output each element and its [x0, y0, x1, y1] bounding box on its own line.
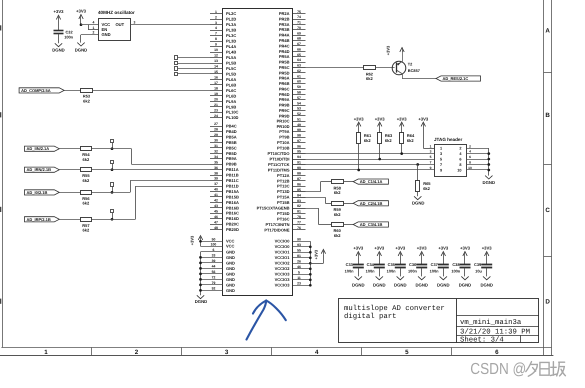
svg-text:50: 50: [212, 237, 216, 241]
svg-text:6: 6: [495, 349, 499, 356]
svg-text:PT13D: PT13D: [277, 189, 290, 194]
svg-text:PL6A: PL6A: [226, 77, 236, 82]
svg-text:18: 18: [214, 87, 218, 91]
capacitor C35 100n: [395, 264, 406, 266]
svg-text:PT13C: PT13C: [277, 184, 290, 189]
wire oscillator GND pin 2 to ground: [81, 34, 98, 36]
svg-text:6k2: 6k2: [385, 138, 392, 143]
svg-text:PL10D: PL10D: [226, 115, 239, 120]
svg-text:PL3B: PL3B: [226, 28, 236, 33]
wire R60 to flag: [343, 224, 353, 226]
svg-text:19: 19: [214, 92, 218, 96]
ground DGND below R65: [414, 196, 421, 199]
wire JTAG TDO line (U1 to header pin 3): [293, 153, 434, 155]
svg-text:100n: 100n: [451, 269, 460, 274]
svg-text:9: 9: [440, 168, 442, 172]
svg-text:84: 84: [297, 193, 301, 197]
svg-text:63: 63: [297, 64, 301, 68]
svg-text:PB11A: PB11A: [226, 167, 239, 172]
ground DGND below C33: [355, 276, 362, 279]
svg-text:VCCIO3: VCCIO3: [275, 272, 291, 277]
svg-text:DGND: DGND: [412, 201, 425, 206]
ground DGND below U1: [197, 295, 204, 298]
svg-text:+3V3: +3V3: [54, 9, 65, 14]
node junction on AD_IRN/2.1B: [111, 168, 114, 171]
resistor R55: [81, 168, 92, 172]
ground DGND below C39: [483, 276, 490, 279]
svg-text:PB11D: PB11D: [226, 183, 239, 188]
svg-text:12: 12: [214, 54, 218, 58]
wire C34 to ground: [379, 268, 381, 277]
svg-text:35: 35: [214, 160, 218, 164]
svg-text:5: 5: [298, 270, 300, 274]
svg-text:PR9D: PR9D: [279, 113, 290, 118]
svg-text:61: 61: [297, 74, 301, 78]
svg-text:23: 23: [297, 281, 301, 285]
svg-text:10: 10: [214, 48, 218, 52]
wire C32 to ground: [58, 34, 60, 44]
svg-text:PB5C: PB5C: [226, 145, 237, 150]
node junction R64: [400, 152, 403, 155]
svg-text:7: 7: [215, 32, 217, 36]
svg-text:DGND: DGND: [459, 282, 472, 287]
wire AD_COMP flag to R53: [64, 90, 80, 92]
svg-text:28: 28: [214, 128, 218, 132]
svg-text:PT12B: PT12B: [277, 178, 290, 183]
svg-text:40: 40: [214, 188, 218, 192]
resistor R63: [378, 133, 382, 144]
svg-text:100: 100: [211, 242, 217, 246]
svg-text:PR5C: PR5C: [279, 65, 290, 70]
svg-text:3: 3: [134, 21, 136, 25]
node junction on AD_IRP/2.1B: [111, 218, 114, 221]
svg-text:GND: GND: [226, 277, 235, 282]
svg-text:2: 2: [469, 144, 471, 148]
wire +3V3 to oscillator VCC pin 4: [81, 24, 98, 26]
svg-text:6k2: 6k2: [83, 178, 90, 183]
capacitor C34 100n: [374, 264, 385, 266]
node junction on AD_IIN/2.1A: [111, 147, 114, 150]
svg-text:AD_C3/4.1B: AD_C3/4.1B: [360, 222, 383, 227]
svg-text:GND: GND: [102, 32, 111, 37]
svg-text:+3V3: +3V3: [374, 245, 385, 250]
svg-text:PR2A: PR2A: [279, 11, 290, 16]
svg-text:1: 1: [93, 26, 95, 30]
wire GND bus of U1: [201, 251, 223, 253]
svg-text:3: 3: [430, 150, 432, 154]
svg-text:4: 4: [215, 26, 217, 30]
svg-text:DGND: DGND: [75, 47, 88, 52]
svg-text:PB5D: PB5D: [226, 151, 237, 156]
svg-text:65: 65: [297, 53, 301, 57]
frame right row dividers: [544, 72, 552, 74]
svg-text:PT10C/TDO: PT10C/TDO: [267, 151, 289, 156]
svg-text:VCCIO2: VCCIO2: [275, 266, 291, 271]
svg-text:32: 32: [214, 149, 218, 153]
wire R61 to JTAG line: [358, 144, 360, 170]
svg-text:Sheet: 3/4: Sheet: 3/4: [460, 336, 504, 345]
svg-text:10: 10: [457, 168, 461, 172]
svg-text:66: 66: [297, 47, 301, 51]
svg-text:BC857: BC857: [408, 68, 420, 73]
svg-text:81: 81: [297, 210, 301, 214]
svg-text:PL4A: PL4A: [226, 44, 236, 49]
svg-text:96: 96: [297, 144, 301, 148]
svg-text:PR2B: PR2B: [279, 16, 290, 21]
wire T2 collector to AD_RES flag: [402, 78, 436, 80]
svg-text:6k2: 6k2: [366, 76, 373, 81]
wire C39 to ground: [486, 268, 488, 277]
svg-text:PB5A: PB5A: [226, 134, 237, 139]
wire JTAG TDI line (U1 to header pin 5): [293, 159, 434, 161]
svg-text:PR4C: PR4C: [279, 43, 290, 48]
wire AD_IRN/2.1B to U1: [92, 169, 210, 171]
svg-text:8: 8: [469, 161, 471, 165]
svg-text:4: 4: [93, 21, 95, 25]
resistor R54: [81, 147, 92, 151]
resistor R62: [364, 66, 376, 70]
svg-text:41: 41: [214, 193, 218, 197]
svg-text:75: 75: [297, 10, 301, 14]
svg-text:97: 97: [297, 139, 301, 143]
svg-text:C34: C34: [367, 262, 375, 267]
svg-text:53: 53: [297, 107, 301, 111]
resistor R60: [332, 223, 344, 227]
svg-text:PB16D: PB16D: [226, 216, 239, 221]
wire U1 to R59: [293, 197, 325, 199]
resistor R64: [400, 133, 404, 144]
svg-text:+3V3: +3V3: [76, 9, 87, 14]
svg-text:PR9A: PR9A: [279, 97, 290, 102]
svg-text:9: 9: [430, 166, 432, 170]
svg-text:4: 4: [315, 349, 319, 356]
svg-text:PB15A: PB15A: [226, 189, 239, 194]
svg-text:PL6C: PL6C: [226, 88, 236, 93]
wire VCC pins to +3V3: [201, 241, 223, 243]
svg-text:1: 1: [44, 349, 48, 356]
U1 right pins block 2 (PT) stubs, numbers and labels: [293, 131, 306, 133]
svg-text:6k2: 6k2: [83, 228, 90, 233]
svg-text:6k2: 6k2: [423, 186, 430, 191]
svg-text:71: 71: [297, 21, 301, 25]
ground DGND below oscillator: [77, 43, 84, 46]
svg-text:69: 69: [297, 31, 301, 35]
net flag AD_COMP/2.5A: [19, 88, 64, 93]
svg-text:PR10C: PR10C: [277, 119, 290, 124]
svg-text:VCCIO0: VCCIO0: [275, 239, 291, 244]
capacitor C33 100n: [353, 264, 364, 266]
hand-drawn blue arrow annotation: [247, 301, 286, 340]
svg-text:6k2: 6k2: [83, 99, 90, 104]
svg-text:PB11C: PB11C: [226, 178, 239, 183]
svg-text:2: 2: [135, 349, 139, 356]
svg-text:14: 14: [214, 65, 218, 69]
wire C35 to ground: [400, 268, 402, 277]
svg-text:AD_IRN/2.1B: AD_IRN/2.1B: [27, 167, 52, 172]
svg-text:44: 44: [212, 265, 216, 269]
svg-text:C32: C32: [66, 29, 74, 34]
svg-text:36: 36: [214, 166, 218, 170]
U1 right pins block 1 (PR) stubs, numbers and labels: [293, 13, 306, 15]
wire R64 to JTAG line: [401, 144, 403, 154]
svg-text:C33: C33: [346, 262, 354, 267]
svg-text:7: 7: [440, 163, 442, 167]
svg-text:PT15C/XTAGENB: PT15C/XTAGENB: [257, 206, 290, 211]
svg-text:PB5B: PB5B: [226, 140, 237, 145]
svg-text:PL3A: PL3A: [226, 22, 236, 27]
svg-text:PT9B: PT9B: [279, 135, 289, 140]
test point on AD_IRP/2.1B net: [111, 210, 114, 213]
svg-text:5: 5: [440, 158, 442, 162]
svg-text:PL4B: PL4B: [226, 49, 236, 54]
net flag AD_C1/4.1A: [353, 179, 388, 184]
svg-text:2: 2: [215, 15, 217, 19]
resistor R61: [357, 133, 361, 144]
svg-text:AD_IIN/2.1A: AD_IIN/2.1A: [27, 146, 50, 151]
svg-text:DGND: DGND: [415, 282, 428, 287]
svg-text:PR4A: PR4A: [279, 33, 290, 38]
svg-text:PT12A: PT12A: [277, 173, 290, 178]
svg-text:DGND: DGND: [483, 180, 496, 185]
svg-text:PT17C/INITN: PT17C/INITN: [265, 222, 289, 227]
svg-text:GND: GND: [226, 255, 235, 260]
svg-text:48: 48: [214, 226, 218, 230]
svg-text:3: 3: [440, 152, 442, 156]
wire AD_IIN/2.1A flag to R54: [59, 148, 80, 150]
svg-text:PR6A: PR6A: [279, 76, 290, 81]
svg-text:43: 43: [214, 204, 218, 208]
svg-text:2: 2: [459, 147, 461, 151]
svg-text:3: 3: [225, 349, 229, 356]
power +3V3 for VCCIO bus: [310, 263, 323, 265]
svg-text:27: 27: [214, 122, 218, 126]
wire C38 to ground: [464, 268, 466, 277]
svg-text:74: 74: [297, 15, 301, 19]
ground DGND below C38: [461, 276, 468, 279]
svg-text:6k2: 6k2: [83, 201, 90, 206]
svg-text:100n: 100n: [366, 269, 375, 274]
svg-text:PR4B: PR4B: [279, 38, 290, 43]
svg-text:1: 1: [215, 10, 217, 14]
svg-text:AD_IRP/2.1B: AD_IRP/2.1B: [27, 217, 51, 222]
svg-text:+3V3: +3V3: [418, 116, 429, 121]
svg-text:6k2: 6k2: [407, 138, 414, 143]
svg-text:PB11B: PB11B: [226, 173, 239, 178]
svg-text:GND: GND: [226, 249, 235, 254]
svg-text:VCCIO3: VCCIO3: [275, 283, 291, 288]
svg-text:AD_RES/2.1C: AD_RES/2.1C: [443, 76, 469, 81]
svg-text:59: 59: [297, 85, 301, 89]
wire AD_IRP/2.1B to U1: [92, 219, 136, 221]
svg-text:DGND: DGND: [394, 282, 407, 287]
svg-text:PT11D/TMS: PT11D/TMS: [268, 167, 290, 172]
net flag AD_C3/4.1B: [353, 222, 388, 227]
wire R63 to JTAG line: [379, 144, 381, 159]
svg-text:DGND: DGND: [195, 299, 208, 304]
resistor R59: [332, 202, 344, 206]
svg-text:1: 1: [430, 144, 432, 148]
svg-text:62: 62: [297, 69, 301, 73]
svg-text:+3V3: +3V3: [314, 249, 319, 259]
wire C36 to ground: [421, 268, 423, 277]
svg-text:45: 45: [214, 209, 218, 213]
wire JTAG ground pins to DGND bus: [466, 148, 488, 150]
svg-text:DGND: DGND: [352, 282, 365, 287]
svg-text:VCCIO1: VCCIO1: [275, 250, 291, 255]
svg-text:77: 77: [297, 221, 301, 225]
svg-text:86: 86: [297, 182, 301, 186]
svg-text:VCCIO0: VCCIO0: [275, 244, 291, 249]
svg-text:2: 2: [93, 31, 95, 35]
svg-text:46: 46: [214, 215, 218, 219]
capacitor C39 10u: [481, 264, 492, 266]
svg-text:DGND: DGND: [52, 47, 65, 52]
test point on AD_IIN/2.1A net: [111, 140, 114, 143]
wire oscillator OUT to U1 pin 3: [130, 24, 210, 26]
test point on AD_IRN/2.1B net: [111, 161, 114, 164]
net flag AD_C2/4.1B: [353, 201, 388, 206]
svg-text:GND: GND: [226, 288, 235, 293]
svg-text:PT15B: PT15B: [277, 200, 290, 205]
svg-text:3: 3: [215, 21, 217, 25]
svg-text:+3V3: +3V3: [438, 245, 449, 250]
frame bottom ruler lines: [1, 347, 551, 349]
svg-text:82: 82: [297, 204, 301, 208]
wire U1 PR5C to R62: [293, 67, 364, 69]
svg-text:31: 31: [214, 144, 218, 148]
test points on U1 pins 12-15: [175, 56, 178, 60]
svg-text:17: 17: [214, 81, 218, 85]
svg-text:+3V3: +3V3: [189, 235, 194, 245]
svg-text:PL2C: PL2C: [226, 11, 236, 16]
ground DGND below C35: [397, 276, 404, 279]
net flag AD_RES/2.1C: [436, 76, 481, 81]
svg-text:PR6B: PR6B: [279, 81, 290, 86]
node junction on AD_I0/2.1B: [111, 191, 114, 194]
svg-text:20: 20: [214, 97, 218, 101]
svg-text:VCCIO2: VCCIO2: [275, 261, 291, 266]
svg-text:34: 34: [214, 155, 218, 159]
wire U1 to R58: [293, 191, 321, 193]
svg-text:23: 23: [214, 108, 218, 112]
svg-text:7: 7: [430, 161, 432, 165]
capacitor C37 100n: [438, 264, 449, 266]
net flag AD_IRN/2.1B: [25, 167, 60, 172]
svg-text:PL10C: PL10C: [226, 110, 239, 115]
svg-text:C35: C35: [388, 262, 396, 267]
svg-text:PT15A: PT15A: [277, 195, 290, 200]
svg-text:PL5A: PL5A: [226, 55, 236, 60]
svg-text:100n: 100n: [408, 269, 417, 274]
op IC U1 FPGA body: [223, 9, 293, 296]
wire AD_IIN/2.1A to U1: [92, 148, 132, 150]
svg-text:OUT: OUT: [116, 22, 125, 27]
svg-text:6k2: 6k2: [334, 233, 341, 238]
svg-text:PT10B: PT10B: [277, 146, 290, 151]
svg-text:10u: 10u: [475, 269, 482, 274]
capacitor C32: [54, 30, 64, 32]
svg-text:51: 51: [297, 117, 301, 121]
watermark glyph ban: [550, 362, 556, 376]
svg-text:AD_C2/4.1B: AD_C2/4.1B: [360, 201, 383, 206]
wire R65 to ground: [417, 192, 419, 197]
frame right border double lines: [543, 0, 545, 355]
resistor R65: [416, 163, 419, 166]
svg-text:94: 94: [297, 155, 301, 159]
svg-text:90: 90: [297, 237, 301, 241]
U1 left pins block 2 (PB) stubs, numbers and labels: [210, 126, 223, 128]
svg-text:AD_I0/2.1B: AD_I0/2.1B: [27, 190, 48, 195]
svg-text:PB4C: PB4C: [226, 124, 237, 129]
svg-text:B: B: [545, 112, 550, 119]
svg-text:PB16A: PB16A: [226, 200, 239, 205]
svg-text:PB15B: PB15B: [226, 194, 239, 199]
svg-text:C36: C36: [409, 262, 417, 267]
watermark glyph xi: [526, 362, 532, 372]
svg-text:47: 47: [214, 220, 218, 224]
wire R53 to U1 pin 18: [92, 90, 210, 92]
svg-text:PR4D: PR4D: [279, 49, 290, 54]
svg-text:PT15D: PT15D: [277, 211, 290, 216]
wire R59 to flag: [343, 203, 353, 205]
wire U1 to R60: [293, 208, 319, 210]
ground DGND of JTAG header: [485, 176, 492, 179]
svg-text:PR5D: PR5D: [279, 70, 290, 75]
svg-text:A: A: [545, 28, 550, 35]
svg-text:42: 42: [214, 199, 218, 203]
node junction R63: [378, 158, 381, 161]
svg-text:PR9C: PR9C: [279, 108, 290, 113]
svg-text:3/21/20 11:39 PM: 3/21/20 11:39 PM: [460, 327, 530, 336]
svg-text:PT10A: PT10A: [277, 140, 290, 145]
svg-text:AD_C1/4.1A: AD_C1/4.1A: [360, 179, 383, 184]
svg-text:88: 88: [297, 172, 301, 176]
svg-text:C37: C37: [431, 262, 438, 267]
svg-text:VCC: VCC: [226, 244, 235, 249]
svg-text:D: D: [545, 299, 550, 306]
ground DGND below C37: [440, 276, 447, 279]
svg-text:67: 67: [297, 42, 301, 46]
svg-text:PR5A: PR5A: [279, 54, 290, 59]
svg-text:PL2D: PL2D: [226, 17, 236, 22]
svg-text:70: 70: [297, 26, 301, 30]
svg-text:6k2: 6k2: [364, 138, 371, 143]
svg-text:6k2: 6k2: [334, 212, 341, 217]
svg-text:40MHZ oscillator: 40MHZ oscillator: [98, 10, 135, 15]
svg-text:21: 21: [214, 103, 218, 107]
svg-text:PB20C: PB20C: [226, 222, 239, 227]
svg-text:+3V3: +3V3: [482, 245, 493, 250]
svg-text:+3V3: +3V3: [417, 245, 428, 250]
svg-text:CSDN @: CSDN @: [470, 361, 526, 378]
svg-text:PL5C: PL5C: [226, 66, 236, 71]
svg-text:39: 39: [214, 177, 218, 181]
resistor R58: [332, 180, 344, 184]
svg-text:PR6D: PR6D: [279, 92, 290, 97]
svg-text:DGND: DGND: [373, 282, 386, 287]
svg-text:92: 92: [212, 287, 216, 291]
node: oscillator VCC junction: [80, 23, 83, 26]
svg-text:VCCIO3: VCCIO3: [275, 277, 291, 282]
wire VCCIO bus of U1: [293, 241, 310, 243]
ground DGND below C32: [55, 43, 62, 46]
svg-text:87: 87: [297, 177, 301, 181]
svg-text:PL3C: PL3C: [226, 33, 236, 38]
svg-text:PB16C: PB16C: [226, 211, 239, 216]
svg-text:78: 78: [297, 215, 301, 219]
watermark glyph ri: [540, 362, 549, 375]
svg-text:13: 13: [214, 59, 218, 63]
